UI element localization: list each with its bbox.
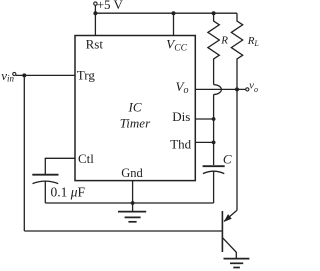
capacitor C2 0.1uF top plate: [32, 174, 58, 176]
resistor R: [208, 13, 219, 84]
capacitor C1 top plate: [203, 165, 225, 167]
op-amp U1 IC timer box: [75, 36, 195, 181]
junction dot Vo at RL: [235, 87, 239, 91]
junction dot vin node: [22, 73, 26, 77]
wire Ctl pin out and down: [45, 158, 75, 174]
transistor Q1 collector wire diagonal: [224, 210, 237, 221]
wire C2 bottom lead: [44, 181, 46, 203]
node vin terminal: [13, 72, 16, 75]
svg-text:Ctl: Ctl: [78, 151, 94, 166]
transistor Q1 emitter wire: [222, 238, 236, 259]
wire vin to Trg pin: [16, 74, 75, 76]
wire Dis pin to R branch: [195, 118, 213, 120]
wire C1 bottom lead: [213, 171, 215, 203]
svg-text:Dis: Dis: [172, 109, 190, 124]
svg-text:Rst: Rst: [86, 37, 104, 52]
svg-text:vo: vo: [249, 81, 258, 94]
wire ground bus: [45, 202, 213, 204]
capacitor C1 curved plate: [203, 171, 224, 173]
ground symbol at transistor emitter: [224, 259, 250, 268]
wire bottom bus vin to transistor base: [24, 230, 222, 232]
wire vin node down left side: [23, 75, 25, 231]
svg-text:Vo: Vo: [176, 79, 189, 96]
wire R branch continues to capacitor C: [213, 94, 215, 165]
ground symbol at Gnd pin: [118, 212, 146, 222]
junction dot Dis: [212, 117, 216, 121]
junction dot ground bus at Gnd pin: [131, 201, 135, 205]
wire hop: R branch jumps over Vo wire: [214, 85, 222, 95]
wire rail down to Vcc pin: [173, 13, 175, 35]
junction dot rail at Vcc feed: [172, 11, 176, 15]
wire Vo pin out: [195, 88, 245, 90]
svg-text:Thd: Thd: [170, 136, 191, 151]
svg-text:IC: IC: [128, 99, 142, 114]
resistor RL: [231, 13, 242, 210]
svg-text:C: C: [223, 152, 232, 167]
svg-text:Gnd: Gnd: [121, 166, 143, 180]
svg-text:+5 V: +5 V: [97, 0, 124, 12]
junction dot rail at R top: [212, 11, 216, 15]
svg-text:Timer: Timer: [120, 116, 151, 131]
junction dot Thd: [212, 141, 216, 145]
node vo terminal: [246, 88, 249, 91]
svg-text:vin: vin: [1, 68, 14, 84]
wire +5V terminal down to Rst pin: [94, 5, 96, 35]
svg-text:0.1 μF: 0.1 μF: [51, 184, 86, 199]
svg-text:VCC: VCC: [166, 36, 187, 53]
wire Thd pin to R branch: [195, 141, 213, 143]
transistor Q1 collector arrowhead: [224, 214, 232, 222]
capacitor C2 0.1uF curved plate: [33, 181, 59, 184]
wire top supply rail: [95, 12, 237, 14]
terminal +5V: [94, 2, 97, 5]
label IC Timer: [120, 99, 151, 130]
transistor Q1 base bar: [221, 211, 223, 252]
svg-text:Trg: Trg: [77, 68, 96, 83]
svg-text:RL: RL: [247, 35, 260, 48]
svg-text:R: R: [220, 35, 228, 47]
wire Gnd pin down: [132, 181, 134, 212]
junction dot supply rail at Rst feed: [93, 11, 97, 15]
